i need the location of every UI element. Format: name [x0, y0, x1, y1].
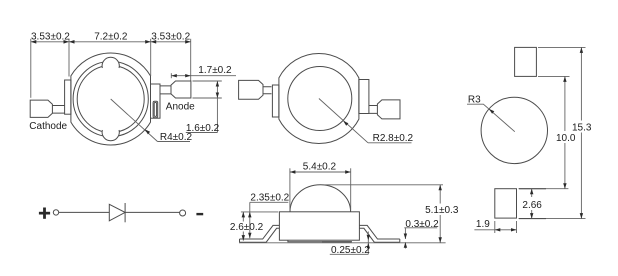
arrowheads 1.7 — [171, 74, 177, 77]
left pad — [239, 80, 263, 99]
arrowheads — [31, 40, 37, 44]
radius leader R4±0.2 — [111, 99, 193, 143]
left lead tab — [272, 85, 279, 117]
leader arrowhead on body circle — [145, 129, 150, 134]
dimension 1.7±0.2 (anode pad length) — [171, 65, 236, 78]
silicone dome lens — [290, 185, 351, 212]
lens circle R4 — [77, 66, 144, 133]
svg-text:3.53±0.2: 3.53±0.2 — [151, 32, 190, 43]
svg-text:5.1±0.3: 5.1±0.3 — [425, 205, 459, 216]
dimension 0.3±0.2 (lead thickness) — [404, 219, 439, 249]
seating plane line — [239, 242, 446, 244]
svg-text:2.35±0.2: 2.35±0.2 — [250, 193, 289, 204]
polarity slot outer — [153, 101, 158, 118]
svg-text:3.53±0.2: 3.53±0.2 — [31, 32, 70, 43]
dimension 1.6±0.2 (anode pad width) — [186, 81, 222, 134]
left lead bottom surface — [240, 228, 280, 242]
radius leader R3 — [467, 95, 515, 132]
extension line pad top — [193, 80, 222, 82]
radius leader line R2.8 — [319, 99, 412, 143]
right lead bottom surface — [359, 228, 399, 242]
extension line body left — [68, 39, 70, 77]
extension line right pad — [190, 39, 192, 81]
LED body outer circle with side flats — [279, 54, 359, 144]
lens circle R2.8 — [288, 67, 352, 131]
dimension 15.3 — [519, 47, 592, 218]
text shelf line — [186, 132, 218, 134]
svg-text:7.2±0.2: 7.2±0.2 — [94, 32, 128, 43]
arrowheads 1.6 — [216, 81, 219, 87]
cathode wire — [125, 211, 180, 213]
lens retaining ring circle — [73, 61, 148, 136]
dimension 5.4±0.2 (dome diameter) — [290, 161, 351, 210]
anode wire — [59, 211, 109, 213]
thermal pad circle R3 — [481, 97, 547, 163]
right lead tab — [359, 80, 369, 114]
dimension 0.25±0.2 (slug protrusion) — [330, 232, 370, 257]
cathode bar — [124, 203, 126, 222]
extension line body right — [150, 39, 152, 76]
radius leader line R4 — [111, 99, 190, 142]
dimension line 1.7 — [171, 75, 236, 77]
anode neck — [160, 86, 171, 94]
LED body outer circle with side flats — [71, 53, 151, 145]
left neck — [263, 87, 272, 94]
left lead top surface — [240, 225, 280, 239]
svg-text:0.25±0.2: 0.25±0.2 — [331, 245, 370, 256]
package body — [279, 212, 359, 240]
cathode pad — [30, 100, 52, 117]
radius leader R2.8±0.2 — [319, 99, 414, 145]
svg-text:2.6±0.2: 2.6±0.2 — [230, 222, 264, 233]
right lead top surface — [359, 225, 399, 239]
left terminal — [53, 210, 58, 215]
svg-text:5.4±0.2: 5.4±0.2 — [303, 161, 337, 172]
leader arrowhead on lens circle — [343, 121, 348, 126]
plus sign — [43, 208, 46, 219]
extension line dome apex — [323, 184, 444, 186]
cathode neck — [52, 106, 64, 114]
svg-text:R2.8±0.2: R2.8±0.2 — [373, 133, 414, 144]
dimension 10.0 — [519, 76, 576, 188]
svg-text:R3: R3 — [468, 95, 481, 106]
radius leader line R3 — [467, 104, 515, 132]
svg-text:R4±0.2: R4±0.2 — [160, 132, 193, 143]
dimension 2.35±0.2 — [248, 193, 290, 239]
dimension 1.9 — [474, 219, 516, 233]
dimension 3.53/7.2/3.53 top chain — [31, 32, 191, 98]
svg-text:0.3±0.2: 0.3±0.2 — [405, 219, 439, 230]
diode triangle — [109, 204, 125, 221]
tick at pad left edge — [170, 73, 172, 78]
polarity slot inner — [154, 103, 156, 117]
bottom solder pad — [495, 189, 517, 218]
minus sign — [196, 213, 203, 215]
heat slug bottom — [288, 240, 352, 242]
svg-text:2.66: 2.66 — [522, 200, 542, 211]
leader arrowhead on pad circle — [489, 109, 494, 114]
right lead tab — [151, 84, 161, 118]
svg-text:15.3: 15.3 — [572, 123, 592, 134]
dimension 5.1±0.3 (total height) — [425, 185, 459, 243]
right neck — [369, 106, 378, 114]
dimension line 1.6 — [216, 81, 218, 133]
right pad — [377, 100, 400, 119]
extension line left pad — [30, 39, 32, 98]
svg-text:10.0: 10.0 — [556, 133, 576, 144]
extension line pad bottom — [193, 97, 222, 99]
dimension 2.6±0.2 — [230, 212, 264, 241]
anode pad — [171, 81, 191, 98]
extension line body top — [241, 211, 278, 213]
right terminal — [180, 210, 186, 216]
top solder pad — [515, 47, 537, 76]
bottom alignment bump — [102, 130, 119, 141]
left lead tab — [65, 80, 71, 114]
dimension line — [31, 41, 191, 43]
svg-text:1.9: 1.9 — [476, 219, 490, 230]
top alignment bump — [102, 57, 119, 68]
dimension 2.66 — [519, 189, 546, 219]
svg-text:1.7±0.2: 1.7±0.2 — [198, 65, 232, 76]
slug pad thick segment — [322, 241, 351, 243]
svg-text:Anode: Anode — [166, 101, 195, 112]
svg-text:Cathode: Cathode — [29, 121, 67, 132]
